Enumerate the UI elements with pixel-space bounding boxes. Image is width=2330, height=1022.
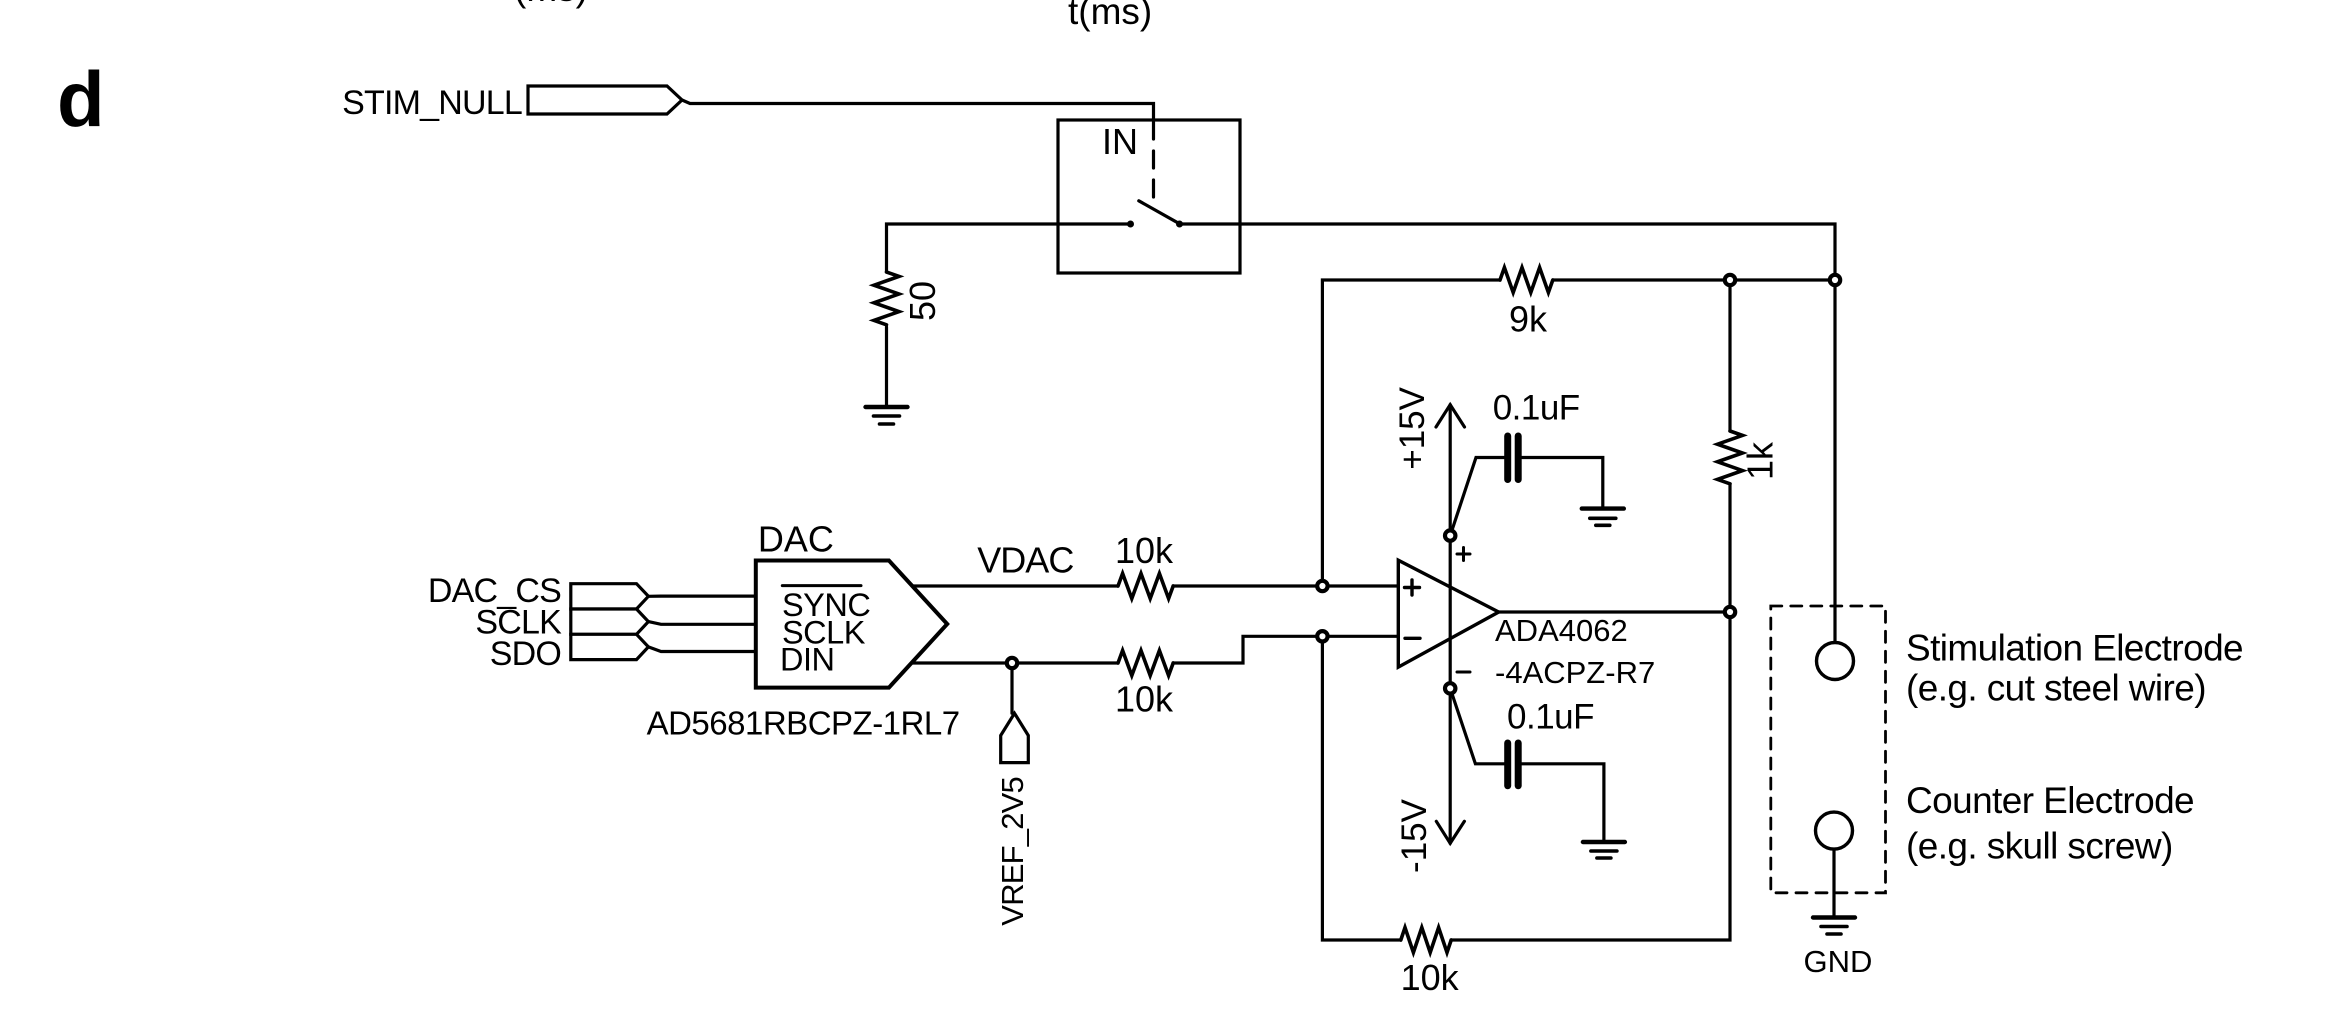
svg-text:10k: 10k: [1115, 678, 1174, 719]
resistor 1k: [1718, 431, 1743, 484]
SYNC overline: [782, 584, 861, 587]
wire - supply to bypass cap: [1450, 688, 1504, 763]
junction + input: [1317, 581, 1327, 591]
ground top bypass: [1582, 509, 1624, 526]
junction + supply: [1445, 530, 1455, 540]
switch actuator dashed line: [1152, 122, 1155, 199]
svg-text:IN: IN: [1102, 121, 1138, 162]
wire top feedback left: [1322, 280, 1500, 586]
svg-text:GND: GND: [1804, 944, 1873, 979]
resistor 9k: [1500, 268, 1553, 293]
switch contact right: [1176, 221, 1183, 228]
capacitor C2 0.1uF: [1508, 743, 1519, 786]
wire top node to 1k: [1728, 280, 1731, 431]
ground bottom bypass: [1583, 842, 1625, 858]
wire cap to ground: [1522, 458, 1603, 509]
svg-text:DIN: DIN: [780, 641, 834, 677]
resistor 10k feedback: [1401, 928, 1451, 953]
switch contact left: [1127, 221, 1134, 228]
svg-text:Stimulation Electrode: Stimulation Electrode: [1906, 627, 2243, 668]
ground: [866, 407, 908, 424]
svg-text:0.1uF: 0.1uF: [1507, 697, 1594, 736]
svg-text:0.1uF: 0.1uF: [1493, 389, 1580, 428]
svg-text:-15V: -15V: [1395, 798, 1434, 873]
wire switch left to 50 ohm: [887, 224, 1131, 272]
junction - input: [1317, 631, 1327, 641]
wire SDO to DAC: [648, 647, 755, 652]
svg-text:(e.g. skull screw): (e.g. skull screw): [1906, 826, 2173, 867]
op-amp - input mark: [1405, 637, 1420, 640]
wire 10k to op-amp minus: [1173, 636, 1398, 663]
DAC AD5681 symbol: [756, 561, 947, 688]
counter electrode circle: [1816, 812, 1853, 849]
svg-text:VDAC: VDAC: [977, 540, 1073, 581]
junction node 9k/1k: [1725, 275, 1735, 285]
svg-text:STIM_NULL: STIM_NULL: [342, 84, 522, 122]
resistor 10k lower: [1118, 651, 1173, 676]
svg-text:(e.g. cut steel wire): (e.g. cut steel wire): [1906, 668, 2206, 709]
wire 10k to op-amp +: [1173, 584, 1398, 587]
wire counter electrode to ground: [1832, 849, 1835, 917]
svg-text:50: 50: [902, 281, 943, 321]
junction output: [1725, 607, 1735, 617]
ground GND: [1813, 918, 1855, 935]
+15V arrow: [1436, 405, 1465, 427]
svg-text:10k: 10k: [1401, 957, 1460, 998]
wire 50 to ground: [885, 327, 888, 407]
wire VREF stub: [1010, 663, 1013, 713]
wire top node to stimulation electrode: [1833, 280, 1836, 643]
op-amp output wire: [1499, 610, 1730, 613]
junction node top right: [1830, 275, 1840, 285]
svg-text:1k: 1k: [1740, 441, 1781, 480]
dashed electrode box: [1771, 606, 1886, 893]
stimulation electrode circle: [1817, 643, 1854, 680]
STIM_NULL flag: [528, 86, 682, 114]
-15V arrow: [1436, 821, 1464, 843]
VREF_2V5 power flag: [1001, 713, 1029, 762]
resistor 50: [874, 272, 899, 325]
svg-text:ADA4062: ADA4062: [1495, 613, 1628, 648]
capacitor C1 0.1uF: [1508, 436, 1519, 480]
bottom feedback wire: [1322, 636, 1400, 940]
wire cap to ground: [1522, 764, 1604, 842]
svg-text:10k: 10k: [1115, 530, 1174, 571]
wire STIM_NULL to switch: [682, 100, 1154, 122]
flag SCLK: [571, 609, 649, 634]
svg-text:+15V: +15V: [1393, 386, 1432, 469]
svg-text:VREF_2V5: VREF_2V5: [995, 777, 1030, 926]
svg-text:-4ACPZ-R7: -4ACPZ-R7: [1495, 655, 1655, 690]
svg-text:DAC: DAC: [758, 519, 834, 560]
supply rail vertical: [1449, 405, 1452, 844]
flag SDO: [571, 634, 649, 659]
wire switch right to top node: [1180, 224, 1836, 280]
junction VREF: [1007, 658, 1017, 668]
supply - pin mark: [1457, 671, 1470, 674]
wire 9k to top node: [1553, 278, 1835, 281]
svg-text:Counter Electrode: Counter Electrode: [1906, 780, 2194, 821]
resistor 10k upper: [1118, 574, 1173, 599]
svg-text:9k: 9k: [1509, 299, 1548, 340]
op-amp + input mark: [1405, 580, 1420, 595]
svg-text:(ms): (ms): [514, 0, 588, 9]
svg-text:SDO: SDO: [490, 635, 561, 673]
junction - supply: [1445, 683, 1455, 693]
wire DAC_CS to DAC: [648, 594, 755, 597]
svg-text:t(ms): t(ms): [1068, 0, 1152, 32]
wire 1k to output node: [1728, 484, 1731, 612]
wire SCLK to DAC: [648, 622, 755, 625]
wire DAC lower output: [911, 661, 1118, 664]
flag DAC_CS: [571, 584, 649, 609]
switch lever: [1139, 201, 1180, 224]
svg-text:AD5681RBCPZ-1RL7: AD5681RBCPZ-1RL7: [647, 705, 960, 742]
svg-text:d: d: [57, 55, 105, 143]
switch box IN: [1058, 120, 1240, 273]
wire VDAC: [912, 584, 1118, 587]
wire + supply to bypass cap: [1450, 458, 1504, 536]
supply + pin mark: [1457, 548, 1470, 561]
op-amp U1 ADA4062: [1398, 560, 1498, 667]
wire feedback to output: [1451, 612, 1730, 940]
